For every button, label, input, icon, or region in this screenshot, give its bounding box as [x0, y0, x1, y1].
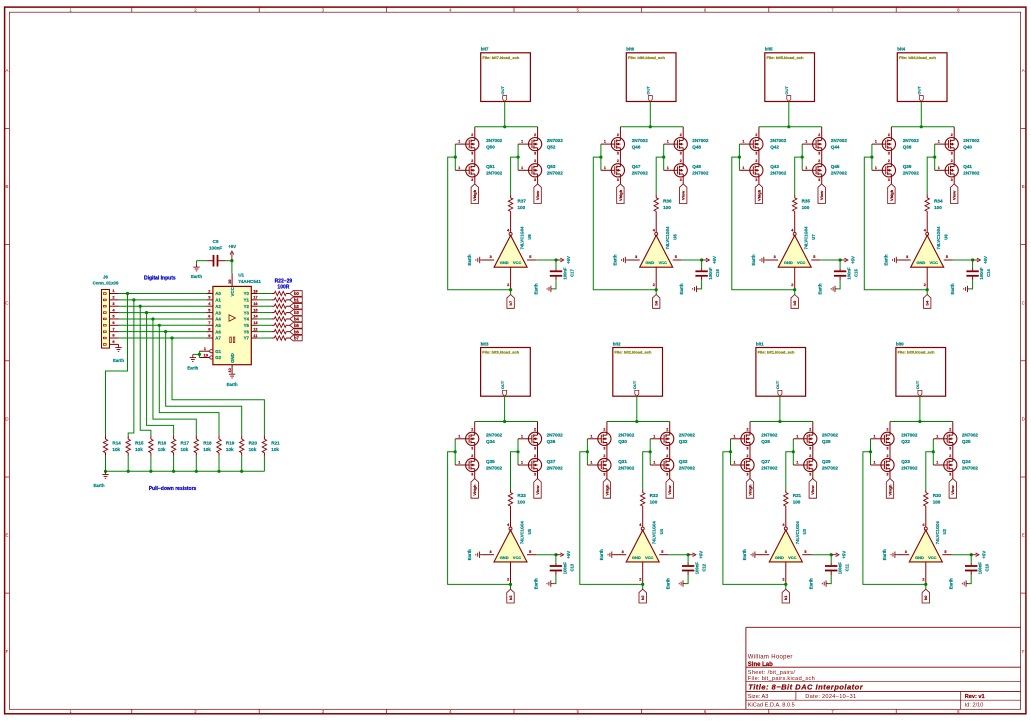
svg-text:2: 2 [603, 454, 605, 458]
wire Y7 to R29 [258, 337, 272, 339]
svg-text:U7: U7 [811, 234, 816, 240]
resistor R37 100 [508, 195, 526, 215]
node rail junction 2 [127, 470, 130, 473]
global label b7 (output of R29) [290, 335, 302, 341]
svg-text:1: 1 [936, 434, 938, 438]
svg-text:19: 19 [204, 353, 209, 358]
svg-text:1: 1 [604, 166, 606, 170]
svg-text:C10: C10 [985, 563, 990, 571]
wire R30 to inverter (bit0) [925, 509, 927, 527]
wire right gate link (bit7) [517, 144, 519, 170]
svg-text:R32: R32 [650, 493, 659, 498]
capacitor C13 100nF [550, 562, 575, 575]
svg-text:1: 1 [734, 434, 736, 438]
wire C11 to earth [828, 575, 831, 584]
svg-text:GND: GND [500, 260, 509, 265]
wire J6 pin 7 to U1 A6 [119, 331, 207, 333]
transistor Q52 2N7002 [521, 133, 563, 156]
wire Q22 source to Q23 drain [889, 445, 891, 458]
svg-text:100nF: 100nF [708, 267, 713, 280]
svg-text:b3: b3 [508, 595, 513, 600]
svg-text:Earth: Earth [94, 483, 105, 488]
svg-text:12: 12 [253, 326, 258, 331]
svg-text:2: 2 [887, 454, 889, 458]
svg-text:3: 3 [471, 473, 473, 477]
svg-text:14: 14 [253, 314, 258, 319]
svg-text:+5V: +5V [698, 551, 703, 559]
node drain junction (bit4) [920, 125, 923, 128]
svg-text:2: 2 [507, 283, 509, 287]
transistor Q31 2N7002 [590, 454, 634, 477]
svg-text:1: 1 [667, 140, 669, 144]
svg-text:Q40: Q40 [963, 144, 972, 149]
svg-text:U1: U1 [238, 273, 244, 278]
node rail junction 6 [217, 470, 220, 473]
node drain junction (bit2) [635, 420, 638, 423]
connector J6 [93, 275, 119, 348]
svg-text:5: 5 [675, 255, 677, 259]
svg-text:Q42: Q42 [770, 144, 779, 149]
svg-text:1: 1 [521, 166, 523, 170]
wire sheet OUT down (bit4) [920, 102, 922, 127]
svg-text:13: 13 [253, 320, 258, 325]
svg-text:U2: U2 [942, 528, 947, 534]
wire U5 VCC to +5V (bit3) [536, 554, 556, 556]
wire Y0 to R22 [258, 293, 272, 295]
capacitor C17 100nF [550, 267, 575, 280]
wire inverter out to right gates (bit4) [927, 157, 935, 195]
svg-text:2N7002: 2N7002 [486, 465, 503, 470]
svg-text:R19: R19 [226, 441, 235, 446]
sheet bit5 [765, 47, 815, 102]
svg-text:U3: U3 [802, 528, 807, 534]
node VCC junction (bit4) [971, 258, 974, 261]
global label b4 (output of R26) [290, 316, 302, 322]
svg-text:1: 1 [521, 461, 523, 465]
wire right gate link (bit2) [649, 439, 651, 465]
transistor Q29 2N7002 [796, 454, 838, 477]
capacitor C16 100nF [695, 267, 720, 280]
svg-text:Q26: Q26 [761, 439, 770, 444]
wire R31 to inverter (bit1) [785, 509, 787, 527]
sheet pin OUT (bit2) [632, 380, 639, 396]
svg-text:1: 1 [742, 140, 744, 144]
global label Vlow (bit4) [951, 184, 958, 204]
svg-text:Vlow: Vlow [535, 485, 540, 495]
svg-text:2: 2 [680, 133, 682, 137]
svg-text:+5V: +5V [566, 551, 571, 559]
svg-text:F: F [1022, 649, 1025, 654]
svg-text:3: 3 [906, 255, 908, 259]
svg-text:2: 2 [782, 578, 784, 582]
wire b7 net to left gates (bit7) [448, 157, 511, 290]
wire J6 pin 2 to U1 A1 [119, 299, 207, 301]
global label Vhigh (bit3) [471, 479, 478, 499]
svg-text:GND: GND [916, 260, 925, 265]
svg-text:File: bit1.kicad_sch: File: bit1.kicad_sch [758, 350, 795, 355]
wire right drain drop (bit7) [537, 127, 539, 138]
svg-text:bit2: bit2 [613, 341, 621, 346]
svg-text:R21: R21 [271, 441, 280, 446]
global label b5 (output of R27) [290, 323, 302, 329]
wire Q46 source to Q47 drain [619, 151, 621, 164]
wire +5V to C10 [970, 555, 972, 563]
svg-text:10k: 10k [112, 447, 120, 452]
wire +5V to C15 [839, 260, 841, 268]
svg-text:C17: C17 [570, 268, 575, 276]
svg-text:2: 2 [818, 133, 820, 137]
svg-text:Earth: Earth [533, 578, 538, 589]
node right gate junction (bit1) [792, 450, 795, 453]
svg-text:3: 3 [809, 473, 811, 477]
node junction row 4 [145, 311, 148, 314]
sheet pin OUT (bit1) [775, 380, 782, 396]
svg-text:100: 100 [802, 205, 810, 210]
wire inverter out to right gates (bit2) [643, 452, 651, 490]
svg-text:+5V: +5V [850, 256, 855, 264]
wire Q26 source to Q27 drain [749, 445, 751, 458]
wire input bit4 to pull-down R18 [153, 319, 196, 435]
resistor R35 100 [793, 195, 811, 215]
svg-text:Vlow: Vlow [667, 485, 672, 495]
svg-text:OUT: OUT [775, 380, 780, 389]
svg-text:B: B [6, 184, 9, 189]
power symbol Earth (C15) [818, 283, 837, 294]
svg-text:74LVC1G04: 74LVC1G04 [935, 521, 940, 545]
wire R34 to inverter (bit4) [926, 215, 928, 233]
svg-text:3: 3 [489, 550, 491, 554]
wire Q50 source to Q51 drain [474, 151, 476, 164]
svg-text:Q25: Q25 [962, 439, 971, 444]
svg-text:Q36: Q36 [547, 439, 556, 444]
svg-text:b6: b6 [654, 300, 659, 305]
svg-text:G2: G2 [215, 355, 221, 360]
wire sheet OUT down (bit0) [919, 396, 921, 421]
svg-text:100: 100 [793, 500, 801, 505]
svg-text:100: 100 [650, 500, 658, 505]
svg-text:C13: C13 [569, 563, 574, 571]
wire drain bus (bit3) [475, 421, 538, 423]
node right gate junction (bit5) [801, 156, 804, 159]
node VCC junction (bit6) [700, 258, 703, 261]
svg-text:OUT: OUT [632, 380, 637, 389]
wire R14 to ground rail [105, 456, 107, 471]
node VCC junction (bit7) [554, 258, 557, 261]
node drain junction (bit7) [503, 125, 506, 128]
svg-text:1: 1 [590, 461, 592, 465]
svg-text:A0: A0 [215, 291, 221, 296]
svg-text:A4: A4 [215, 317, 221, 322]
sheet bit1 [756, 341, 806, 396]
svg-text:18: 18 [253, 288, 258, 293]
transistor Q27 2N7002 [734, 454, 778, 477]
wire input stub (bit4) [926, 290, 928, 295]
transistor Q28 2N7002 [796, 428, 838, 451]
wire left drain drop (bit4) [890, 127, 892, 138]
power symbol Earth (U3 GND) [742, 549, 757, 560]
wire right gate link (bit4) [934, 144, 936, 170]
wire Q28 source to Q29 drain [812, 445, 814, 458]
svg-text:b4: b4 [294, 317, 300, 322]
svg-text:2: 2 [818, 159, 820, 163]
wire inverter out to right gates (bit0) [926, 452, 934, 490]
svg-text:100nF: 100nF [563, 267, 568, 280]
svg-text:2N7002: 2N7002 [901, 433, 918, 438]
wire +5V to C12 [687, 555, 689, 563]
svg-text:2: 2 [471, 428, 473, 432]
svg-text:bit0: bit0 [896, 341, 904, 346]
wire left drain drop (bit2) [606, 422, 608, 433]
wire left gate link (bit3) [454, 439, 456, 465]
svg-text:100nF: 100nF [838, 562, 843, 575]
node right gate junction (bit3) [516, 450, 519, 453]
svg-text:1: 1 [875, 166, 877, 170]
node left gate junction (bit7) [454, 156, 457, 159]
wire drain bus (bit0) [890, 421, 953, 423]
svg-text:3: 3 [617, 178, 619, 182]
wire b0 net to left gates (bit0) [863, 452, 926, 585]
wire b2 net to left gates (bit2) [580, 452, 643, 585]
wire +5V to C13 [555, 555, 557, 563]
wire R33 to inverter (bit3) [510, 509, 512, 527]
node VCC junction (bit3) [554, 553, 557, 556]
svg-text:2: 2 [603, 428, 605, 432]
transistor Q43 2N7002 [742, 159, 786, 182]
wire R32 to inverter (bit2) [642, 509, 644, 527]
svg-text:74LVC1G04: 74LVC1G04 [936, 226, 941, 250]
node right gate junction (bit6) [662, 156, 665, 159]
resistor R14 10k [103, 435, 121, 456]
wire right drain drop (bit5) [821, 127, 823, 138]
power symbol Earth (C11) [809, 578, 828, 589]
svg-text:Y3: Y3 [244, 310, 250, 315]
wire C15 to earth [837, 280, 840, 289]
svg-text:Q23: Q23 [901, 459, 910, 464]
capacitor C11 100nF [825, 562, 850, 575]
svg-text:Digital Inputs: Digital Inputs [144, 276, 176, 282]
svg-text:OUT: OUT [917, 86, 922, 95]
node right gate junction (bit7) [517, 156, 520, 159]
svg-text:William Hooper: William Hooper [748, 655, 793, 661]
wire inverter out to right gates (bit1) [786, 452, 794, 490]
svg-text:R15: R15 [135, 441, 144, 446]
wire b6 net to left gates (bit6) [593, 157, 656, 290]
svg-text:2N7002: 2N7002 [632, 171, 649, 176]
svg-text:1: 1 [805, 140, 807, 144]
node left gate junction (bit1) [729, 450, 732, 453]
svg-text:3: 3 [755, 152, 757, 156]
svg-text:R16: R16 [158, 441, 167, 446]
transistor Q39 2N7002 [875, 159, 919, 182]
svg-text:Q49: Q49 [692, 164, 701, 169]
svg-text:2: 2 [755, 133, 757, 137]
svg-text:VCC: VCC [930, 260, 939, 265]
wire Y1 to R23 [258, 299, 272, 301]
svg-text:20: 20 [227, 279, 232, 284]
svg-text:2: 2 [617, 159, 619, 163]
node junction row 5 [151, 317, 154, 320]
svg-text:Q37: Q37 [547, 459, 556, 464]
svg-text:KiCad E.D.A. 8.0.5: KiCad E.D.A. 8.0.5 [748, 703, 795, 709]
svg-text:File: bit4.kicad_sch: File: bit4.kicad_sch [899, 55, 936, 60]
global label Vlow (bit2) [666, 479, 673, 499]
svg-text:5: 5 [529, 550, 531, 554]
svg-text:3: 3 [765, 550, 767, 554]
svg-text:OUT: OUT [500, 380, 505, 389]
power symbol Earth (U8 GND) [613, 254, 628, 265]
svg-text:U8: U8 [673, 234, 678, 240]
svg-text:1: 1 [653, 434, 655, 438]
svg-text:GND: GND [500, 555, 509, 560]
svg-text:+5V: +5V [566, 256, 571, 264]
global label Vlow (bit6) [680, 184, 687, 204]
svg-text:3: 3 [809, 446, 811, 450]
svg-text:bit3: bit3 [481, 341, 489, 346]
svg-text:1: 1 [742, 166, 744, 170]
svg-text:Q39: Q39 [903, 164, 912, 169]
svg-text:Size: A3: Size: A3 [748, 694, 769, 700]
svg-text:2: 2 [951, 159, 953, 163]
power symbol Earth (U1 enables) [187, 354, 198, 370]
svg-text:A6: A6 [215, 329, 221, 334]
svg-text:Q48: Q48 [692, 144, 701, 149]
svg-text:OUT: OUT [915, 380, 920, 389]
wire left gate link (bit5) [738, 144, 740, 170]
svg-text:1: 1 [874, 461, 876, 465]
global label Vlow (bit7) [534, 184, 541, 204]
wire Q37 source stub [537, 472, 539, 479]
wire U6 VCC to +5V (bit4) [953, 259, 973, 261]
svg-text:2N7002: 2N7002 [618, 433, 635, 438]
node left gate junction (bit0) [869, 450, 872, 453]
wire drain bus (bit1) [750, 421, 813, 423]
wire input bit0 to pull-down R14 [106, 294, 128, 436]
svg-text:Vlow: Vlow [819, 190, 824, 200]
inverter U2 74LVC1G04 [897, 521, 952, 585]
transistor Q33 2N7002 [653, 454, 695, 477]
svg-text:+5V: +5V [712, 256, 717, 264]
svg-text:b0: b0 [923, 595, 928, 600]
wire Q41 source stub [953, 177, 955, 184]
wire U2 VCC to +5V (bit0) [952, 554, 972, 556]
wire sheet OUT down (bit1) [779, 396, 781, 421]
svg-text:2N7002: 2N7002 [761, 465, 778, 470]
svg-text:File: bit7.kicad_sch: File: bit7.kicad_sch [482, 55, 519, 60]
svg-text:Earth: Earth [113, 358, 124, 363]
svg-text:100nF: 100nF [695, 562, 700, 575]
global label Vhigh (bit7) [471, 184, 478, 204]
wire right gate link (bit1) [792, 439, 794, 465]
wire input bit7 to pull-down R21 [172, 338, 264, 435]
wire R21 to ground rail [263, 456, 265, 471]
sheet bit0 [896, 341, 946, 396]
global label Vhigh (bit4) [888, 184, 895, 204]
svg-text:b4: b4 [925, 300, 930, 305]
svg-text:A: A [6, 68, 9, 73]
node junction row 3 [139, 305, 142, 308]
svg-text:2: 2 [747, 428, 749, 432]
svg-text:b7: b7 [508, 300, 513, 305]
svg-text:+5V: +5V [228, 244, 236, 249]
sheet bit2 [613, 341, 663, 396]
wire drain bus (bit7) [475, 126, 538, 128]
svg-text:Q35: Q35 [486, 459, 495, 464]
svg-text:2: 2 [809, 454, 811, 458]
svg-text:2: 2 [471, 133, 473, 137]
wire J6 pin 5 to U1 A4 [119, 318, 207, 320]
svg-text:Q47: Q47 [632, 164, 641, 169]
svg-text:3: 3 [471, 178, 473, 182]
resistor R30 100 [924, 489, 942, 509]
svg-text:5: 5 [804, 550, 806, 554]
svg-text:3: 3 [755, 178, 757, 182]
node input junction (bit3) [509, 583, 512, 586]
svg-text:1: 1 [938, 166, 940, 170]
wire drain bus (bit6) [620, 126, 683, 128]
svg-text:5: 5 [944, 550, 946, 554]
node drain junction (bit3) [503, 420, 506, 423]
wire b5 net to left gates (bit5) [732, 157, 795, 290]
svg-text:5: 5 [661, 550, 663, 554]
svg-text:2: 2 [747, 454, 749, 458]
svg-text:1: 1 [521, 434, 523, 438]
wire C12 to earth [685, 575, 688, 584]
wire J6 pin 1 to U1 A0 [119, 293, 207, 295]
wire Q45 source stub [821, 177, 823, 184]
wire input stub (bit0) [925, 584, 927, 589]
transistor Q47 2N7002 [604, 159, 648, 182]
global label b1 [782, 589, 789, 603]
svg-text:bit1: bit1 [756, 341, 764, 346]
svg-text:Earth: Earth [884, 254, 889, 265]
wire inverter out to right gates (bit5) [795, 157, 803, 195]
node drain junction (bit6) [649, 125, 652, 128]
svg-text:3: 3 [490, 255, 492, 259]
svg-text:2N7002: 2N7002 [618, 465, 635, 470]
svg-text:R36: R36 [663, 198, 672, 203]
power symbol Earth (U6 GND) [884, 254, 899, 265]
wire Y4 to R26 [258, 318, 272, 320]
svg-text:10k: 10k [181, 447, 189, 452]
global label Vlow (bit3) [534, 479, 541, 499]
svg-text:2: 2 [534, 454, 536, 458]
wire Q39 source stub [890, 177, 892, 184]
svg-text:3: 3 [666, 473, 668, 477]
svg-text:5: 5 [813, 255, 815, 259]
global label Vhigh (bit5) [755, 184, 762, 204]
node input junction (bit2) [641, 583, 644, 586]
svg-text:74LVC1G04: 74LVC1G04 [804, 226, 809, 250]
svg-text:A2: A2 [215, 304, 221, 309]
wire R16 to ground rail [150, 456, 152, 471]
resistor R32 100 [641, 489, 659, 509]
global label b6 (output of R28) [290, 329, 302, 335]
global label Vhigh (bit1) [746, 479, 753, 499]
global label Vhigh (bit0) [886, 479, 893, 499]
wire right drain drop (bit0) [952, 422, 954, 433]
wire +5V to C14 [972, 260, 974, 268]
node junction row 2 [132, 298, 135, 301]
svg-text:1: 1 [734, 461, 736, 465]
svg-text:GND: GND [632, 555, 641, 560]
wire left gate link (bit7) [454, 144, 456, 170]
svg-text:R35: R35 [802, 198, 811, 203]
wire U7 VCC to +5V (bit5) [820, 259, 840, 261]
svg-text:Vlow: Vlow [810, 485, 815, 495]
wire J6 pin 4 to U1 A3 [119, 312, 207, 314]
power symbol Earth (U9 GND) [467, 254, 482, 265]
svg-text:100: 100 [517, 500, 525, 505]
